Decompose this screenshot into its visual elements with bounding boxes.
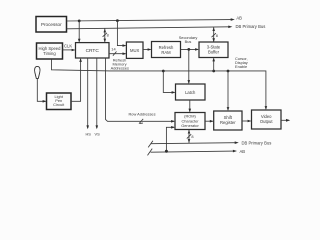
light pen circuit: [47, 93, 72, 110]
svg-text:Addresses: Addresses: [111, 65, 129, 70]
svg-text:Bus: Bus: [185, 39, 192, 44]
label refresh memory addresses: [111, 57, 129, 70]
wire AB to MUX upper input: [117, 21, 126, 47]
wire shift register to video output: [242, 120, 252, 123]
wire clock line from high speed timing (cursor, display enable): [52, 59, 268, 110]
svg-text:Timing: Timing: [43, 51, 56, 56]
wire clock branch to shift register top: [227, 71, 230, 111]
svg-text:Latch: Latch: [185, 90, 196, 95]
processor U1: [36, 17, 67, 33]
wire clock branch to latch left: [163, 71, 175, 94]
wire AB bottom to character generator lower input: [166, 126, 175, 151]
latch: [176, 84, 206, 100]
svg-text:Register: Register: [220, 120, 236, 125]
character generator: [175, 113, 205, 130]
wire character generator to shift register: [205, 120, 214, 123]
svg-text:CLK: CLK: [64, 44, 72, 49]
wire row addresses: CRTC bottom to character generator: [106, 58, 176, 124]
wire refresh RAM to 3-state buffer (secondary bus): [181, 48, 200, 51]
shift register: [214, 111, 242, 130]
wire CRTC to MUX (14 refresh memory addresses): [109, 52, 126, 56]
wire latch to character generator: [189, 100, 192, 113]
svg-text:Generator: Generator: [181, 123, 199, 128]
wire CLK: timing to CRTC: [63, 49, 76, 52]
MUX: [126, 42, 143, 58]
svg-text:AB: AB: [236, 16, 242, 21]
wire DB primary bus (top): [67, 26, 233, 29]
node secondary bus junction: [187, 48, 190, 51]
svg-text:Output: Output: [260, 119, 273, 124]
node AB junction at x=79: [78, 20, 81, 23]
wire DB to 3-state buffer (8-bit, bidirectional): [212, 27, 218, 42]
3-state buffer: [199, 42, 228, 58]
node clock junction at buffer branch: [212, 70, 215, 73]
node clock junction at shift register branch: [227, 70, 230, 73]
wire AB primary bus (top): [67, 18, 235, 21]
label cursor, display enable: [235, 56, 248, 69]
svg-text:Row Addresses: Row Addresses: [128, 112, 155, 117]
wire video output signal out: [281, 119, 290, 122]
wire MUX to refresh RAM: [143, 48, 152, 51]
wire character generator to DB bottom (8-bit, bidirectional): [187, 130, 194, 143]
wire AB to CRTC top: [78, 21, 81, 43]
svg-text:Buffer: Buffer: [208, 50, 220, 55]
wire VS output from CRTC: [96, 58, 99, 129]
wire DB primary bus (bottom): [148, 141, 239, 148]
wire HS output from CRTC: [86, 58, 89, 129]
svg-text:8: 8: [191, 134, 193, 139]
wire light pen circuit to CRTC bottom: [71, 58, 82, 101]
node clock junction at latch branch: [162, 70, 165, 73]
svg-text:8: 8: [107, 33, 109, 38]
svg-text:Enable: Enable: [235, 64, 247, 69]
label secondary bus: [179, 35, 198, 44]
svg-text:Processor: Processor: [41, 22, 62, 27]
wire clock branch up to 3-state buffer bottom: [212, 58, 215, 72]
svg-text:8: 8: [216, 33, 218, 38]
video output: [252, 110, 282, 129]
svg-text:Circuit: Circuit: [53, 102, 65, 107]
wire light pen to light pen circuit: [37, 78, 46, 102]
node AB junction at x=117: [116, 19, 119, 22]
light pen symbol: [35, 66, 40, 78]
refresh RAM: [152, 42, 181, 58]
wire DB to CRTC top (8-bit, bidirectional): [103, 28, 109, 42]
node AB bottom junction: [165, 150, 168, 153]
CRTC U2: [76, 43, 110, 58]
svg-text:MUX: MUX: [130, 48, 140, 53]
wire secondary bus to latch top: [188, 49, 191, 84]
svg-text:DB Primary Bus: DB Primary Bus: [236, 24, 266, 29]
wire AB bus (bottom): [148, 149, 238, 156]
svg-text:HS: HS: [86, 132, 92, 137]
svg-text:DB Primary Bus: DB Primary Bus: [242, 140, 272, 145]
svg-text:RAM: RAM: [161, 50, 171, 55]
svg-text:VS: VS: [95, 132, 101, 137]
svg-text:AB: AB: [240, 149, 246, 154]
high speed timing: [37, 43, 63, 59]
svg-text:CRTC: CRTC: [86, 48, 100, 54]
